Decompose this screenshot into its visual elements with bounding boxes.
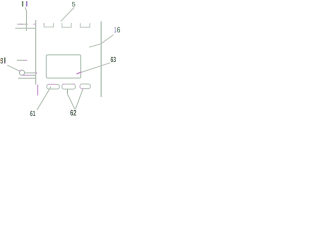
wire V2 lower purple segment [37, 85, 39, 96]
terminal cup 1 [44, 23, 53, 27]
svg-text:62: 62 [70, 108, 77, 117]
wire A horizontal y24 [17, 23, 28, 25]
wire y75 green [31, 74, 36, 76]
wire A right tick [33, 23, 35, 25]
dash purple end [25, 59, 28, 61]
leader 62 right leg [75, 89, 83, 109]
tail under pad B [66, 89, 68, 93]
svg-text:61: 61 [30, 109, 36, 118]
label 31 [0, 56, 5, 65]
pad C purple left [80, 85, 84, 88]
leader 62 left leg [67, 94, 75, 110]
box 63 (main rectangle) [46, 55, 80, 78]
terminal cup 3 [80, 23, 90, 27]
pad 62a (shape B) [62, 84, 75, 89]
pad A purple top [49, 83, 57, 85]
wire circle to V2 [25, 72, 36, 74]
junction dot [36, 72, 38, 73]
circle node [19, 70, 24, 75]
svg-text:5: 5 [72, 1, 76, 8]
wire B horizontal y28 [15, 27, 36, 29]
label 11 [22, 1, 28, 6]
leader from 11 [25, 7, 26, 31]
leader from 63 [77, 63, 111, 74]
wire A purple tint [20, 23, 23, 25]
leader from 61 [37, 87, 51, 110]
leader from 31 [7, 65, 19, 71]
wire y75 purple [22, 74, 31, 76]
circle purple arc [20, 70, 22, 71]
svg-text:63: 63 [111, 55, 117, 64]
svg-text:6: 6 [117, 25, 121, 34]
pad 61 (shape A) [47, 84, 60, 89]
terminal cup 2 [62, 23, 71, 27]
cup 1 purple corner [43, 23, 45, 25]
leader 63 arrow tip [77, 72, 82, 74]
dash right of 31 [17, 59, 25, 61]
label 16 [114, 25, 121, 34]
wire V2 vertical x35.7 [35, 20, 37, 85]
pad B purple corners [63, 83, 75, 85]
wire y78 [18, 77, 36, 79]
leader from 16 [89, 35, 114, 48]
pad 62b (shape C) [80, 84, 90, 89]
leader from 5 [61, 7, 75, 21]
wire V3 vertical x101 [100, 21, 102, 97]
